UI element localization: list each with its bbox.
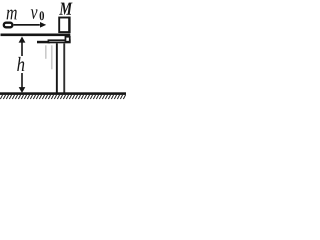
table right edge bbox=[68, 34, 70, 38]
label m bbox=[7, 10, 17, 20]
table top line bbox=[1, 34, 71, 37]
label h bbox=[17, 57, 24, 71]
faint back legs bbox=[45, 45, 46, 59]
h arrow upper head bbox=[19, 37, 26, 43]
block M bbox=[59, 18, 69, 33]
table leg right line bbox=[63, 43, 65, 93]
h arrow lower head bbox=[19, 87, 26, 93]
table apron outline bbox=[37, 41, 50, 44]
table edge box bbox=[65, 37, 69, 42]
h arrow lower segment bbox=[21, 73, 23, 89]
block m bbox=[4, 23, 13, 28]
velocity arrow v0 bbox=[14, 22, 47, 28]
label v0 bbox=[31, 9, 38, 18]
table leg left line bbox=[56, 43, 58, 93]
h arrow upper segment bbox=[21, 41, 23, 56]
ground line bbox=[0, 92, 126, 95]
ground hatching bbox=[0, 95, 125, 99]
label M bbox=[59, 3, 72, 15]
